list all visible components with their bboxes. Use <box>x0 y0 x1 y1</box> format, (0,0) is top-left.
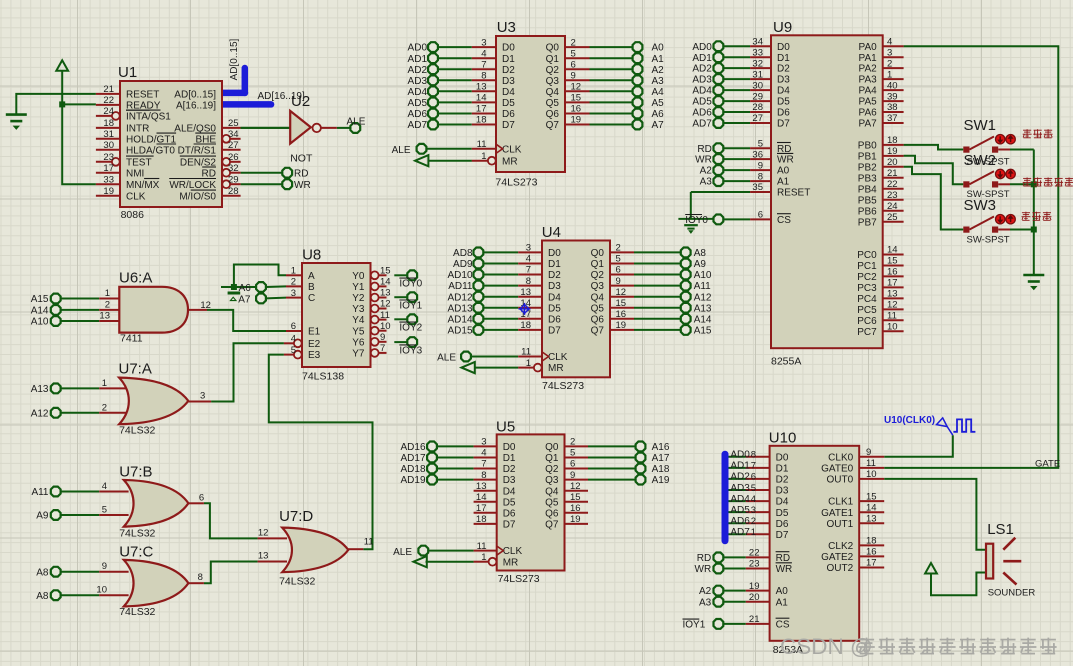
svg-text:D3: D3 <box>502 76 515 87</box>
svg-text:Q5: Q5 <box>591 303 605 314</box>
svg-text:33: 33 <box>752 47 763 58</box>
svg-text:36: 36 <box>752 149 763 160</box>
svg-text:12: 12 <box>570 481 581 492</box>
svg-text:22: 22 <box>887 179 898 190</box>
svg-text:16: 16 <box>571 104 582 115</box>
svg-text:Q5: Q5 <box>546 98 560 109</box>
svg-text:74LS32: 74LS32 <box>119 425 155 437</box>
svg-text:U10(CLK0): U10(CLK0) <box>884 415 935 426</box>
svg-text:6: 6 <box>199 493 204 504</box>
svg-text:AD17: AD17 <box>400 453 425 464</box>
svg-text:Q2: Q2 <box>591 270 605 281</box>
svg-text:Y0: Y0 <box>352 271 365 282</box>
svg-text:PB5: PB5 <box>858 195 877 206</box>
svg-text:A6: A6 <box>239 283 252 294</box>
svg-text:17: 17 <box>476 503 487 514</box>
svg-text:11: 11 <box>364 537 374 548</box>
svg-text:Y5: Y5 <box>352 326 365 337</box>
svg-text:8: 8 <box>751 450 756 461</box>
svg-text:D4: D4 <box>502 87 515 98</box>
svg-text:12: 12 <box>200 300 211 311</box>
svg-text:A6: A6 <box>652 109 665 120</box>
svg-text:2: 2 <box>751 516 756 527</box>
svg-text:AD11: AD11 <box>448 281 473 292</box>
svg-text:10: 10 <box>96 585 107 596</box>
svg-text:SW3: SW3 <box>964 197 997 214</box>
svg-text:18: 18 <box>887 135 898 146</box>
svg-text:SW1: SW1 <box>964 117 997 134</box>
svg-text:38: 38 <box>887 102 898 113</box>
svg-text:74LS273: 74LS273 <box>495 177 537 189</box>
svg-text:D0: D0 <box>502 43 515 54</box>
svg-text:Q5: Q5 <box>545 497 559 508</box>
svg-text:D4: D4 <box>503 486 516 497</box>
svg-text:2: 2 <box>291 277 296 288</box>
svg-text:4: 4 <box>291 334 296 345</box>
svg-text:12: 12 <box>571 82 582 93</box>
svg-text:U10: U10 <box>769 430 797 447</box>
svg-text:A12: A12 <box>694 292 712 303</box>
svg-text:22: 22 <box>103 95 114 106</box>
svg-text:25: 25 <box>887 212 898 223</box>
svg-text:Y6: Y6 <box>352 337 365 348</box>
svg-text:CS: CS <box>776 620 790 631</box>
svg-text:3: 3 <box>200 391 205 402</box>
svg-text:D3: D3 <box>503 475 516 486</box>
svg-text:AD3: AD3 <box>408 76 428 87</box>
svg-text:17: 17 <box>476 104 487 115</box>
svg-text:SW2: SW2 <box>964 152 997 169</box>
svg-text:12: 12 <box>616 287 627 298</box>
svg-text:A18: A18 <box>652 464 670 475</box>
svg-text:Q0: Q0 <box>591 248 605 259</box>
svg-text:SW-SPST: SW-SPST <box>967 235 1010 246</box>
svg-text:D7: D7 <box>776 530 789 541</box>
svg-text:A4: A4 <box>652 87 665 98</box>
svg-text:AD5: AD5 <box>730 505 750 516</box>
svg-text:A10: A10 <box>31 317 49 328</box>
svg-text:12: 12 <box>380 299 391 310</box>
svg-text:Q3: Q3 <box>545 475 559 486</box>
svg-text:CLK: CLK <box>548 352 568 363</box>
svg-text:Q4: Q4 <box>591 292 605 303</box>
svg-text:Q4: Q4 <box>545 486 559 497</box>
svg-text:D6: D6 <box>502 109 515 120</box>
svg-text:A8: A8 <box>36 567 49 578</box>
svg-text:AD14: AD14 <box>447 314 472 325</box>
svg-text:RD: RD <box>294 169 308 180</box>
svg-text:10: 10 <box>866 469 877 480</box>
svg-text:14: 14 <box>476 93 487 104</box>
svg-text:PB0: PB0 <box>858 141 877 152</box>
svg-text:AD7: AD7 <box>730 527 750 538</box>
svg-text:PC6: PC6 <box>857 316 877 327</box>
svg-text:74LS273: 74LS273 <box>498 573 540 585</box>
svg-text:17: 17 <box>887 278 898 289</box>
svg-text:14: 14 <box>866 502 877 513</box>
svg-text:11: 11 <box>887 311 897 322</box>
svg-text:AD16: AD16 <box>400 442 425 453</box>
svg-text:D7: D7 <box>548 326 561 337</box>
svg-text:2: 2 <box>571 37 576 48</box>
svg-text:13: 13 <box>866 513 877 524</box>
svg-text:A3: A3 <box>699 597 712 608</box>
svg-text:D5: D5 <box>777 97 790 108</box>
svg-text:AD4: AD4 <box>692 86 712 97</box>
svg-text:74LS32: 74LS32 <box>119 528 155 540</box>
svg-text:A14: A14 <box>31 306 49 317</box>
svg-text:Q0: Q0 <box>546 43 560 54</box>
svg-text:AD6: AD6 <box>730 516 750 527</box>
svg-text:AD12: AD12 <box>447 292 472 303</box>
svg-text:AD1: AD1 <box>692 53 712 64</box>
svg-text:A8: A8 <box>694 248 707 259</box>
svg-text:D0: D0 <box>548 248 561 259</box>
svg-text:28: 28 <box>752 102 763 113</box>
svg-text:OUT1: OUT1 <box>827 519 854 530</box>
svg-text:20: 20 <box>749 592 760 603</box>
svg-text:PC4: PC4 <box>857 294 877 305</box>
svg-text:Q0: Q0 <box>545 442 559 453</box>
svg-text:A2: A2 <box>652 65 665 76</box>
svg-text:A1: A1 <box>652 54 665 65</box>
svg-text:14: 14 <box>380 277 391 288</box>
svg-text:A[16..19]: A[16..19] <box>176 101 216 112</box>
svg-text:AD5: AD5 <box>408 98 428 109</box>
svg-text:16: 16 <box>616 309 627 320</box>
svg-text:1: 1 <box>105 288 110 299</box>
svg-text:3: 3 <box>481 437 486 448</box>
svg-text:19: 19 <box>887 146 898 157</box>
svg-text:D0: D0 <box>503 442 516 453</box>
svg-text:IOY3: IOY3 <box>399 346 422 357</box>
svg-text:10: 10 <box>887 322 898 333</box>
svg-text:A14: A14 <box>694 314 712 325</box>
svg-text:Q6: Q6 <box>545 508 559 519</box>
svg-text:35: 35 <box>752 182 763 193</box>
svg-text:AD3: AD3 <box>730 483 750 494</box>
svg-text:AD0: AD0 <box>692 42 712 53</box>
svg-text:12: 12 <box>258 528 269 539</box>
svg-text:8086: 8086 <box>121 209 145 221</box>
svg-text:4: 4 <box>887 36 892 47</box>
svg-text:PA5: PA5 <box>859 97 878 108</box>
svg-text:5: 5 <box>291 345 296 356</box>
svg-text:A13: A13 <box>694 303 712 314</box>
svg-text:14: 14 <box>887 245 898 256</box>
svg-text:74LS32: 74LS32 <box>279 576 315 588</box>
svg-text:AD2: AD2 <box>692 64 712 75</box>
svg-text:A2: A2 <box>700 166 713 177</box>
svg-text:8: 8 <box>481 71 486 82</box>
svg-text:14: 14 <box>476 492 487 503</box>
svg-text:A11: A11 <box>694 281 711 292</box>
svg-text:CLK2: CLK2 <box>828 541 853 552</box>
svg-text:IOY0: IOY0 <box>685 215 708 226</box>
svg-text:3: 3 <box>291 288 296 299</box>
svg-text:A19: A19 <box>652 475 670 486</box>
svg-text:17: 17 <box>103 163 114 174</box>
svg-text:15: 15 <box>887 256 898 267</box>
svg-text:18: 18 <box>476 115 487 126</box>
svg-text:Y2: Y2 <box>352 293 365 304</box>
svg-text:AD3: AD3 <box>692 75 712 86</box>
svg-text:PA0: PA0 <box>859 42 878 53</box>
svg-text:1: 1 <box>481 151 486 162</box>
svg-text:11: 11 <box>477 139 487 150</box>
svg-text:RD: RD <box>697 553 711 564</box>
svg-text:19: 19 <box>749 581 760 592</box>
svg-text:8: 8 <box>481 470 486 481</box>
svg-text:1: 1 <box>291 266 296 277</box>
svg-text:13: 13 <box>887 289 898 300</box>
svg-text:PB4: PB4 <box>858 184 877 195</box>
svg-text:34: 34 <box>228 129 239 140</box>
svg-text:U4: U4 <box>542 224 561 241</box>
svg-text:D2: D2 <box>548 270 561 281</box>
svg-text:PC7: PC7 <box>857 327 877 338</box>
svg-text:MR: MR <box>548 363 564 374</box>
svg-text:ALE: ALE <box>437 352 456 363</box>
svg-text:RD: RD <box>697 144 711 155</box>
svg-text:37: 37 <box>887 113 898 124</box>
svg-text:IOY2: IOY2 <box>399 323 422 334</box>
svg-text:A13: A13 <box>31 384 49 395</box>
svg-text:8: 8 <box>526 276 531 287</box>
svg-text:19: 19 <box>616 320 627 331</box>
svg-text:PC5: PC5 <box>857 305 877 316</box>
svg-text:U7:A: U7:A <box>119 361 152 378</box>
svg-text:D0: D0 <box>776 452 789 463</box>
svg-text:RD: RD <box>202 168 216 179</box>
svg-text:1: 1 <box>887 69 892 80</box>
svg-text:20: 20 <box>887 157 898 168</box>
svg-text:NMI: NMI <box>126 168 144 179</box>
svg-text:5: 5 <box>570 448 575 459</box>
svg-text:Y4: Y4 <box>352 315 365 326</box>
svg-text:74LS32: 74LS32 <box>119 606 155 618</box>
svg-text:A: A <box>308 271 315 282</box>
svg-text:25: 25 <box>228 118 239 129</box>
svg-text:2: 2 <box>570 437 575 448</box>
svg-text:5: 5 <box>102 505 107 516</box>
svg-text:Y3: Y3 <box>352 304 365 315</box>
svg-text:D4: D4 <box>776 497 789 508</box>
svg-text:15: 15 <box>570 492 581 503</box>
svg-text:18: 18 <box>866 536 877 547</box>
svg-text:U3: U3 <box>497 19 516 36</box>
svg-text:WR: WR <box>294 180 311 191</box>
svg-text:Q7: Q7 <box>545 520 559 531</box>
svg-text:AD2: AD2 <box>408 65 428 76</box>
svg-text:INTR: INTR <box>126 124 149 135</box>
svg-text:13: 13 <box>476 481 487 492</box>
svg-text:A11: A11 <box>31 487 48 498</box>
svg-text:U7:B: U7:B <box>119 464 152 481</box>
svg-text:RESET: RESET <box>126 90 159 101</box>
svg-text:D2: D2 <box>503 464 516 475</box>
svg-text:D5: D5 <box>776 508 789 519</box>
svg-text:Q2: Q2 <box>545 464 559 475</box>
svg-text:D6: D6 <box>503 508 516 519</box>
svg-text:17: 17 <box>866 558 877 569</box>
svg-text:A7: A7 <box>238 295 251 306</box>
svg-text:24: 24 <box>887 201 898 212</box>
svg-text:29: 29 <box>228 174 239 185</box>
svg-text:21: 21 <box>103 84 114 95</box>
svg-text:6: 6 <box>758 210 763 221</box>
svg-text:26: 26 <box>228 152 239 163</box>
svg-text:U9: U9 <box>773 19 792 36</box>
svg-text:11: 11 <box>521 347 531 358</box>
svg-text:6: 6 <box>291 321 296 332</box>
svg-text:9: 9 <box>616 276 621 287</box>
svg-text:3: 3 <box>887 47 892 58</box>
svg-text:A7: A7 <box>652 120 665 131</box>
svg-text:PA6: PA6 <box>859 108 878 119</box>
svg-text:D6: D6 <box>777 108 790 119</box>
svg-text:Q3: Q3 <box>591 281 605 292</box>
svg-text:AD10: AD10 <box>447 270 472 281</box>
svg-text:7: 7 <box>481 459 486 470</box>
svg-text:ALE: ALE <box>393 547 412 558</box>
svg-text:A15: A15 <box>31 294 49 305</box>
svg-text:Q6: Q6 <box>591 314 605 325</box>
svg-text:12: 12 <box>887 300 898 311</box>
svg-text:74LS138: 74LS138 <box>302 371 344 383</box>
svg-text:D3: D3 <box>548 281 561 292</box>
svg-text:AD0: AD0 <box>408 43 428 54</box>
svg-text:40: 40 <box>887 80 898 91</box>
svg-text:NOT: NOT <box>290 153 313 165</box>
svg-text:PA2: PA2 <box>859 64 878 75</box>
svg-text:MN/MX: MN/MX <box>126 180 160 191</box>
svg-text:4: 4 <box>526 254 531 265</box>
svg-text:A10: A10 <box>694 270 712 281</box>
svg-text:8255A: 8255A <box>771 356 801 368</box>
svg-text:Q7: Q7 <box>546 120 560 131</box>
svg-text:E3: E3 <box>308 350 321 361</box>
svg-text:U7:C: U7:C <box>119 543 153 560</box>
svg-text:A9: A9 <box>36 511 49 522</box>
svg-text:9: 9 <box>570 470 575 481</box>
svg-text:PA7: PA7 <box>859 119 878 130</box>
svg-text:ALE: ALE <box>347 116 366 127</box>
svg-text:13: 13 <box>99 311 110 322</box>
svg-text:MR: MR <box>502 156 518 167</box>
svg-text:6: 6 <box>570 459 575 470</box>
svg-text:23: 23 <box>103 152 114 163</box>
svg-text:D1: D1 <box>502 54 515 65</box>
svg-text:D1: D1 <box>503 453 516 464</box>
svg-text:HLDA/GT0: HLDA/GT0 <box>126 145 175 156</box>
svg-text:OUT0: OUT0 <box>827 475 854 486</box>
svg-text:6: 6 <box>616 265 621 276</box>
svg-text:8: 8 <box>758 171 763 182</box>
svg-text:PC3: PC3 <box>857 283 877 294</box>
svg-text:74LS273: 74LS273 <box>542 380 584 392</box>
svg-text:24: 24 <box>103 106 114 117</box>
svg-text:PC1: PC1 <box>857 261 877 272</box>
svg-text:16: 16 <box>887 267 898 278</box>
svg-text:A8: A8 <box>36 591 49 602</box>
svg-text:D1: D1 <box>777 53 790 64</box>
svg-text:PB3: PB3 <box>858 173 877 184</box>
svg-text:D7: D7 <box>777 119 790 130</box>
svg-text:3: 3 <box>526 243 531 254</box>
svg-text:Q1: Q1 <box>591 259 605 270</box>
svg-text:30: 30 <box>103 140 114 151</box>
svg-text:A0: A0 <box>777 166 790 177</box>
svg-text:D1: D1 <box>548 259 561 270</box>
svg-text:A3: A3 <box>652 76 665 87</box>
svg-text:39: 39 <box>887 91 898 102</box>
svg-text:Q7: Q7 <box>591 326 605 337</box>
svg-text:19: 19 <box>571 115 582 126</box>
svg-text:5: 5 <box>751 483 756 494</box>
svg-text:U1: U1 <box>118 64 137 81</box>
svg-text:32: 32 <box>228 163 239 174</box>
svg-text:4: 4 <box>102 481 107 492</box>
svg-text:15: 15 <box>616 298 627 309</box>
svg-text:13: 13 <box>476 82 487 93</box>
svg-text:Y1: Y1 <box>352 282 365 293</box>
svg-text:A1: A1 <box>776 597 789 608</box>
svg-text:GATE1: GATE1 <box>821 508 853 519</box>
svg-text:1: 1 <box>102 378 107 389</box>
svg-text:AD1: AD1 <box>730 461 750 472</box>
svg-text:34: 34 <box>752 36 763 47</box>
svg-text:9: 9 <box>102 561 107 572</box>
svg-text:GATE2: GATE2 <box>821 552 853 563</box>
svg-text:WR: WR <box>695 564 712 575</box>
svg-text:AD5: AD5 <box>692 97 712 108</box>
svg-text:D5: D5 <box>503 497 516 508</box>
svg-text:PB7: PB7 <box>858 217 877 228</box>
svg-text:13: 13 <box>520 287 531 298</box>
svg-text:AD8: AD8 <box>453 248 473 259</box>
svg-text:2: 2 <box>616 243 621 254</box>
svg-text:A16: A16 <box>652 442 670 453</box>
svg-text:AD[0..15]: AD[0..15] <box>174 90 216 101</box>
svg-text:19: 19 <box>103 186 114 197</box>
svg-text:IOY1: IOY1 <box>399 301 422 312</box>
svg-text:7: 7 <box>751 461 756 472</box>
svg-text:11: 11 <box>477 541 487 552</box>
svg-text:3: 3 <box>481 37 486 48</box>
svg-text:23: 23 <box>887 190 898 201</box>
svg-text:E1: E1 <box>308 327 321 338</box>
svg-text:CS: CS <box>777 215 791 226</box>
svg-text:CLK0: CLK0 <box>828 452 853 463</box>
svg-text:D4: D4 <box>548 292 561 303</box>
svg-text:D3: D3 <box>777 75 790 86</box>
svg-text:PA1: PA1 <box>859 53 878 64</box>
svg-text:PB2: PB2 <box>858 162 877 173</box>
svg-text:WR: WR <box>776 564 793 575</box>
svg-text:D7: D7 <box>502 120 515 131</box>
svg-text:D6: D6 <box>776 519 789 530</box>
svg-text:M/IO/S0: M/IO/S0 <box>179 191 216 202</box>
svg-text:7411: 7411 <box>120 333 143 345</box>
svg-text:AD9: AD9 <box>453 259 473 270</box>
svg-text:33: 33 <box>103 174 114 185</box>
svg-text:U5: U5 <box>496 419 515 436</box>
svg-text:PA3: PA3 <box>859 75 878 86</box>
svg-text:PC2: PC2 <box>857 272 877 283</box>
svg-text:21: 21 <box>749 614 760 625</box>
svg-text:CLK: CLK <box>502 144 522 155</box>
